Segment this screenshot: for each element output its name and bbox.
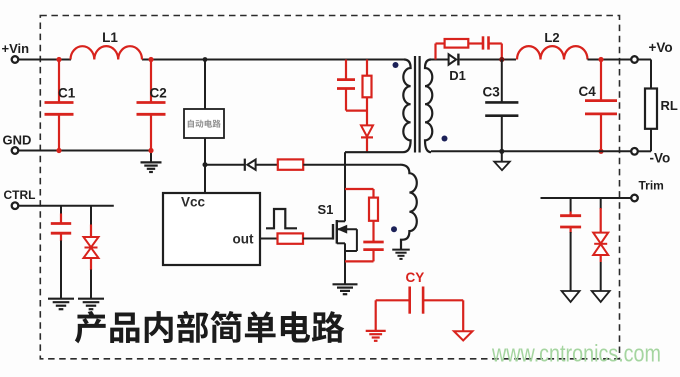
svg-text:+Vin: +Vin [2, 41, 30, 56]
svg-text:www.cntronics.com: www.cntronics.com [491, 341, 661, 368]
svg-text:L1: L1 [102, 30, 118, 45]
svg-text:C3: C3 [483, 85, 501, 100]
svg-text:CTRL: CTRL [4, 188, 36, 202]
svg-text:S1: S1 [318, 202, 334, 217]
svg-text:L2: L2 [544, 30, 559, 45]
svg-text:C4: C4 [579, 84, 597, 99]
svg-text:+Vo: +Vo [649, 40, 673, 55]
svg-text:CY: CY [406, 270, 425, 285]
svg-text:Trim: Trim [639, 179, 664, 193]
svg-text:RL: RL [661, 98, 678, 113]
svg-text:Vcc: Vcc [181, 195, 206, 210]
svg-text:C1: C1 [58, 85, 76, 100]
svg-text:D1: D1 [449, 68, 466, 83]
svg-text:-Vo: -Vo [650, 151, 671, 166]
svg-text:out: out [233, 232, 254, 247]
svg-text:C2: C2 [150, 85, 167, 100]
svg-text:GND: GND [3, 132, 32, 147]
